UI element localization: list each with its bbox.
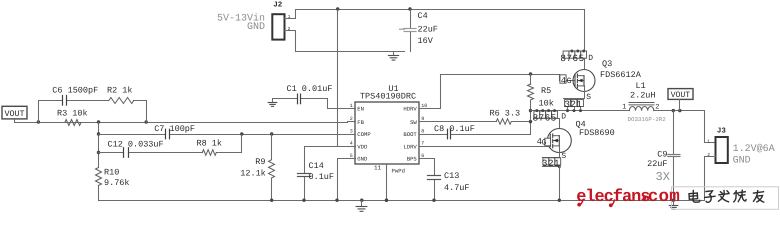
svg-text:R9: R9 (255, 157, 265, 167)
wire COMP line (99, 134, 348, 136)
wire SW rail (531, 110, 630, 112)
resistor R6 3.3 (427, 108, 531, 124)
watermark elecfans.com (576, 187, 680, 207)
node FB-R2loop (145, 120, 148, 123)
ground (C9/output) (669, 201, 678, 210)
watermark chinese 子 (705, 191, 715, 203)
capacitor C7 100pF (154, 124, 195, 139)
label FDS6612A (600, 70, 642, 80)
resistor R2 1k (107, 86, 134, 104)
node rail x673.3 (672, 199, 675, 202)
capacitor C1 0.01uF (273, 84, 348, 109)
connector J2 (272, 1, 404, 52)
svg-text:C1 0.01uF: C1 0.01uF (287, 84, 333, 94)
wire bottom ground rail (99, 200, 705, 202)
node VOUT tap (678, 109, 681, 112)
label 3X (656, 170, 670, 184)
op-amp U1 TPS40190DRC box (355, 84, 419, 164)
node FB-R3 (97, 120, 100, 123)
transistor Q3 FDS6612A (560, 10, 595, 113)
watermark chinese 友 (754, 191, 764, 202)
node SW rail left (529, 109, 532, 112)
label 1.2V@6A (733, 143, 775, 155)
svg-text:16V: 16V (418, 36, 434, 46)
capacitor C8 0.1uF (427, 124, 531, 139)
svg-text:2: 2 (288, 26, 291, 32)
svg-text:GND: GND (247, 22, 265, 33)
svg-text:2: 2 (707, 152, 710, 158)
svg-text:3: 3 (350, 128, 353, 134)
svg-text:DO3316P-2R2: DO3316P-2R2 (628, 116, 667, 123)
svg-text:LDRV: LDRV (403, 143, 417, 150)
wire gate line to Q3 gate (531, 75, 575, 81)
inductor L1 2.2uH (622, 81, 659, 111)
svg-text:0.1uF: 0.1uF (309, 172, 335, 182)
svg-text:4: 4 (561, 76, 566, 86)
node rail x434 (432, 199, 435, 202)
node rail ground mid (360, 199, 363, 202)
watermark chinese 电 (689, 191, 700, 203)
wire HDRV to gate line (427, 75, 531, 109)
node rail-C4 (408, 7, 411, 10)
node rail x337 (335, 199, 338, 202)
svg-text:J2: J2 (273, 1, 283, 10)
node gateline-R5 (529, 72, 532, 75)
svg-text:HDRV: HDRV (403, 106, 417, 113)
svg-text:C8 0.1uF: C8 0.1uF (434, 124, 475, 134)
label Q4 (576, 120, 586, 130)
node rail x304 (302, 199, 305, 202)
wire GND pin to rail (338, 159, 348, 201)
svg-text:8: 8 (421, 128, 424, 134)
svg-text:C12 0.033uF: C12 0.033uF (108, 139, 164, 149)
svg-text:VOUT: VOUT (4, 109, 24, 119)
svg-text:Q3: Q3 (602, 59, 612, 69)
svg-text:VOUT: VOUT (671, 91, 691, 100)
resistor R5 10k (528, 75, 554, 111)
svg-text:C13: C13 (444, 171, 459, 181)
svg-text:SW: SW (410, 119, 417, 126)
wire left FB vertical (98, 123, 100, 201)
svg-text:FDS6612A: FDS6612A (600, 70, 642, 80)
node SW-R6 (529, 120, 532, 123)
svg-text:C7 100pF: C7 100pF (154, 124, 195, 134)
capacitor C12 0.033uF (108, 139, 164, 157)
svg-text:L1: L1 (636, 81, 646, 91)
node FB-C7line (97, 132, 100, 135)
port VOUT (right) (668, 89, 693, 111)
svg-text:8765: 8765 (560, 53, 584, 64)
svg-text:9: 9 (421, 116, 424, 122)
capacitor C14 0.1uF (298, 147, 348, 201)
resistor R3 10k (57, 109, 88, 126)
svg-text:C14: C14 (309, 161, 324, 171)
resistor R9 12.1k (240, 135, 274, 201)
ground (C1) (268, 99, 277, 107)
capacitor C6 1500pF (52, 86, 98, 106)
resistor R8 1k (197, 138, 223, 155)
node VOUT-FB (37, 120, 40, 123)
ground (input) (388, 52, 398, 61)
svg-text:1: 1 (622, 103, 626, 111)
U1 pin 11 PwPd (374, 165, 405, 202)
watermark box (672, 187, 779, 210)
capacitor C9 22uF (647, 111, 680, 201)
svg-text:GND: GND (357, 156, 368, 163)
node rail x386.5 (385, 199, 388, 202)
wire top input rail (296, 9, 585, 11)
svg-text:R6 3.3: R6 3.3 (490, 108, 521, 118)
label GND (input) (247, 22, 265, 33)
svg-text:J3: J3 (717, 127, 727, 136)
svg-text:BP5: BP5 (407, 156, 417, 163)
label Q3 (602, 59, 612, 69)
svg-text:12.1k: 12.1k (240, 169, 266, 179)
wire SW node vertical (530, 111, 532, 135)
port VOUT (left) (2, 106, 39, 122)
svg-text:22uF: 22uF (418, 25, 438, 35)
resistor R10 9.76k (96, 167, 130, 188)
U1 pins (348, 103, 428, 163)
ground (mid rail) (356, 201, 367, 212)
svg-text:4: 4 (350, 141, 353, 147)
svg-text:PwPd: PwPd (392, 168, 405, 175)
svg-text:BOOT: BOOT (403, 131, 417, 138)
svg-text:1: 1 (350, 103, 353, 109)
svg-text:3X: 3X (656, 170, 670, 184)
svg-text:11: 11 (374, 165, 382, 172)
svg-text:321: 321 (542, 158, 560, 169)
svg-text:D: D (588, 54, 593, 63)
wire VDD drop (337, 10, 339, 147)
svg-text:6: 6 (421, 153, 424, 159)
wire C6-R2 loop (39, 101, 147, 123)
svg-text:S: S (586, 93, 591, 102)
watermark chinese 烧 (734, 190, 746, 202)
node rail-VDD drop (336, 7, 339, 10)
svg-text:com: com (648, 187, 680, 207)
connector J3 (705, 127, 728, 201)
svg-text:10k: 10k (539, 99, 554, 109)
svg-text:4.7uF: 4.7uF (444, 183, 470, 193)
node FB-C12line (97, 151, 100, 154)
wire C12-R8 line (99, 135, 242, 153)
svg-text:5: 5 (350, 153, 353, 159)
svg-text:8765: 8765 (533, 113, 557, 124)
svg-text:2.2uH: 2.2uH (630, 91, 656, 101)
svg-text:TPS40190DRC: TPS40190DRC (360, 92, 416, 102)
svg-text:COMP: COMP (357, 131, 371, 138)
svg-text:9.76k: 9.76k (104, 178, 130, 188)
label GND (output) (733, 155, 751, 166)
node C9 tap (672, 109, 675, 112)
watermark chinese 发 (719, 191, 730, 202)
svg-text:321: 321 (564, 99, 582, 110)
svg-text:C9: C9 (657, 150, 667, 160)
svg-text:FDS8690: FDS8690 (579, 128, 615, 138)
svg-text:G: G (542, 138, 547, 147)
node C7line-R8 (240, 132, 243, 135)
svg-text:R2 1k: R2 1k (107, 86, 133, 96)
node rail x559.3 (558, 199, 561, 202)
transistor Q4 FDS8690 (427, 109, 572, 200)
svg-text:C6 1500pF: C6 1500pF (52, 86, 98, 96)
label FDS8690 (579, 128, 615, 138)
svg-text:R10: R10 (104, 167, 119, 177)
wire L1 to output (654, 111, 716, 143)
capacitor C13 4.7uF (427, 159, 470, 201)
node COMP-R9 (270, 132, 273, 135)
label 5V-13Vin (217, 12, 265, 24)
svg-text:FB: FB (357, 119, 364, 126)
svg-text:2: 2 (350, 116, 353, 122)
svg-text:GND: GND (733, 155, 751, 166)
label DO3316P-2R2 (628, 116, 667, 123)
svg-text:1.2V@6A: 1.2V@6A (733, 143, 775, 155)
svg-text:1: 1 (288, 14, 291, 20)
svg-text:1: 1 (707, 138, 710, 144)
svg-text:G: G (567, 77, 572, 86)
wire FB line (39, 122, 348, 124)
svg-text:R3 10k: R3 10k (57, 109, 88, 119)
svg-text:D: D (561, 113, 566, 122)
svg-text:VDD: VDD (357, 143, 368, 150)
svg-text:22uF: 22uF (647, 159, 667, 169)
svg-text:R8 1k: R8 1k (197, 138, 223, 148)
capacitor C4 (400, 10, 438, 52)
svg-text:R5: R5 (541, 86, 551, 96)
svg-text:7: 7 (421, 141, 424, 147)
svg-text:EN: EN (357, 106, 364, 113)
svg-text:S: S (561, 152, 566, 161)
svg-text:C4: C4 (418, 11, 428, 21)
node rail x271.7 (270, 199, 273, 202)
